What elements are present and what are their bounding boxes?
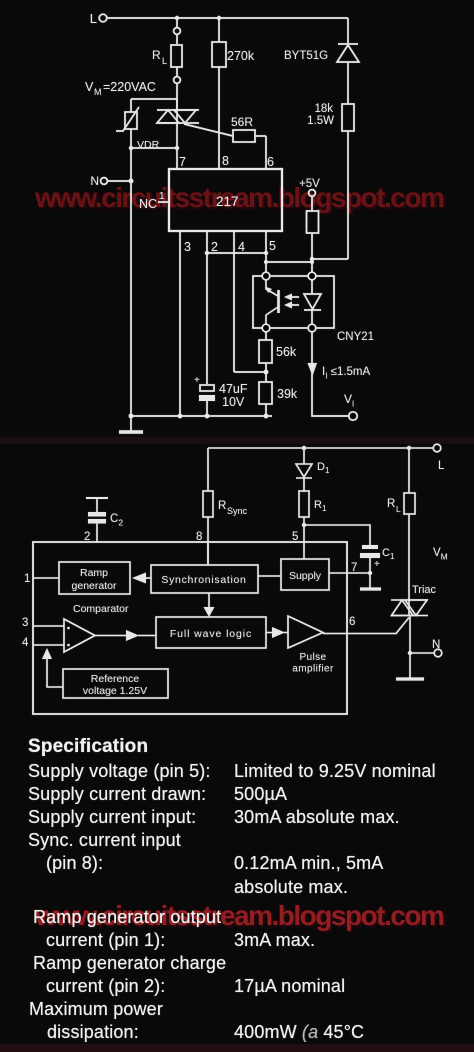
node RL junction xyxy=(175,16,179,20)
pin 6 xyxy=(266,136,274,169)
wire top rail (sec2) xyxy=(208,447,433,449)
svg-text:D1: D1 xyxy=(317,461,330,475)
wire top rail xyxy=(107,17,348,19)
wire 18k to +5V line xyxy=(312,258,348,260)
watermark top xyxy=(35,182,443,214)
svg-text:7: 7 xyxy=(351,562,357,574)
svg-text:Full wave logic: Full wave logic xyxy=(170,628,252,640)
wire N to triac/pin7 xyxy=(129,146,179,150)
wire VM node xyxy=(131,99,177,112)
resistor R1 xyxy=(299,491,327,559)
node N (sec2) xyxy=(408,639,442,657)
comparator A1 xyxy=(64,603,129,652)
svg-text:R: R xyxy=(218,500,226,512)
wire pin2 to pin5 xyxy=(205,251,268,255)
label VM=220VAC xyxy=(85,80,156,97)
capacitor C2 xyxy=(86,498,123,542)
svg-text:L: L xyxy=(396,504,401,514)
ground (triac) xyxy=(396,677,424,680)
pin 6 wire xyxy=(323,616,397,634)
svg-text:Reference: Reference xyxy=(91,673,140,685)
wire bottom rail xyxy=(129,414,272,419)
svg-text:amplifier: amplifier xyxy=(292,664,334,675)
svg-text:voltage 1.25V: voltage 1.25V xyxy=(83,685,147,697)
block Supply xyxy=(281,559,329,590)
diode BYT51G xyxy=(284,44,359,104)
resistor RL (sec2) xyxy=(387,446,415,600)
IC block box xyxy=(33,542,347,714)
resistor 56k xyxy=(259,332,297,374)
svg-text:R: R xyxy=(387,498,395,510)
triac Q1 (top) xyxy=(157,99,199,123)
varistor VDR xyxy=(116,107,160,180)
wire rail to diode xyxy=(347,18,349,43)
pin 4 wire (sec2) xyxy=(22,637,64,649)
wire sync to supply xyxy=(258,575,281,577)
wire R1 to C1 xyxy=(302,523,370,545)
pin 5 wire xyxy=(266,231,276,272)
pin 4 wire xyxy=(234,231,266,372)
svg-text:6: 6 xyxy=(349,616,355,628)
wire pin5 line to +5V line xyxy=(264,260,314,264)
arrow comparator to full wave logic xyxy=(95,630,156,641)
light arrows (in opto) xyxy=(284,294,299,309)
pin 1 NC xyxy=(139,191,169,211)
arrow sync to full wave logic xyxy=(204,593,215,617)
wire opto to VI with current arrow xyxy=(308,332,350,416)
node VI xyxy=(344,392,357,420)
svg-text:1: 1 xyxy=(24,573,30,585)
wire N down to ground xyxy=(130,181,132,431)
svg-text:Triac: Triac xyxy=(412,584,437,596)
svg-text:Synchronisation: Synchronisation xyxy=(161,574,246,586)
block Ramp generator xyxy=(59,562,130,594)
pin 3 wire xyxy=(180,231,191,416)
node N xyxy=(90,174,133,188)
node L xyxy=(90,11,107,26)
svg-text:VM: VM xyxy=(433,547,448,562)
node L (sec2) xyxy=(433,444,445,472)
IC U1 217 xyxy=(169,169,282,231)
pin 2 wire xyxy=(207,231,218,416)
capacitor C1 xyxy=(360,545,395,588)
wire pin 7 xyxy=(329,562,372,575)
node 270k junction xyxy=(217,16,221,20)
svg-text:3: 3 xyxy=(22,617,28,629)
arrow sync to ramp xyxy=(132,573,151,584)
resistor 270k xyxy=(212,18,255,169)
svg-text:2: 2 xyxy=(84,531,90,543)
svg-text:Ramp: Ramp xyxy=(80,567,108,579)
block Synchronisation xyxy=(151,542,258,593)
block Full wave logic xyxy=(156,617,266,648)
optocoupler U2 CNY21 xyxy=(253,272,374,343)
noise band between sections xyxy=(0,437,474,444)
svg-text:Sync: Sync xyxy=(227,506,248,516)
pin 3 wire (sec2) xyxy=(22,617,64,629)
resistor RL xyxy=(152,20,182,110)
svg-text:Pulse: Pulse xyxy=(299,652,326,663)
capacitor C 47uF 10V xyxy=(194,375,248,409)
phototransistor (in opto) xyxy=(266,280,279,324)
pin 5 label (sec2) xyxy=(292,531,304,559)
diode D1 xyxy=(296,446,330,492)
node junction 18k/+5V xyxy=(310,257,314,261)
svg-text:4: 4 xyxy=(22,637,29,649)
svg-text:Comparator: Comparator xyxy=(73,603,129,615)
svg-text:C1: C1 xyxy=(382,547,395,561)
svg-text:5: 5 xyxy=(292,531,298,543)
ground (C1) xyxy=(360,587,381,590)
resistor 39k xyxy=(259,372,298,416)
resistor RSync xyxy=(203,448,248,565)
svg-text:+: + xyxy=(374,559,380,570)
svg-text:R1: R1 xyxy=(314,499,327,513)
pin 7 xyxy=(177,123,186,169)
bottom maroon band xyxy=(0,1044,474,1052)
svg-text:C2: C2 xyxy=(110,513,123,528)
svg-text:generator: generator xyxy=(72,580,117,592)
node +5V xyxy=(299,178,320,196)
triac Q2 (sec2) xyxy=(391,584,437,678)
spec text block xyxy=(28,736,148,758)
resistor R (5V to opto) xyxy=(307,196,319,272)
wire triac gate to 56R xyxy=(184,124,233,136)
arrow full wave logic to pulse amplifier xyxy=(266,627,288,638)
svg-text:N: N xyxy=(432,639,440,651)
arrow reference to comparator xyxy=(42,648,63,687)
svg-text:Supply: Supply xyxy=(289,570,322,582)
watermark bottom xyxy=(35,900,443,932)
LED (in opto) xyxy=(304,280,321,324)
svg-text:L: L xyxy=(438,460,445,472)
ground (top section) xyxy=(119,430,143,434)
pin 1 wire xyxy=(24,573,59,585)
resistor 56R xyxy=(231,115,266,142)
svg-text:8: 8 xyxy=(196,531,202,543)
pulse amplifier A2 xyxy=(288,616,334,675)
wire gate to triac xyxy=(396,618,409,634)
block Reference voltage xyxy=(63,669,168,698)
resistor 18k 1.5W xyxy=(307,103,354,259)
